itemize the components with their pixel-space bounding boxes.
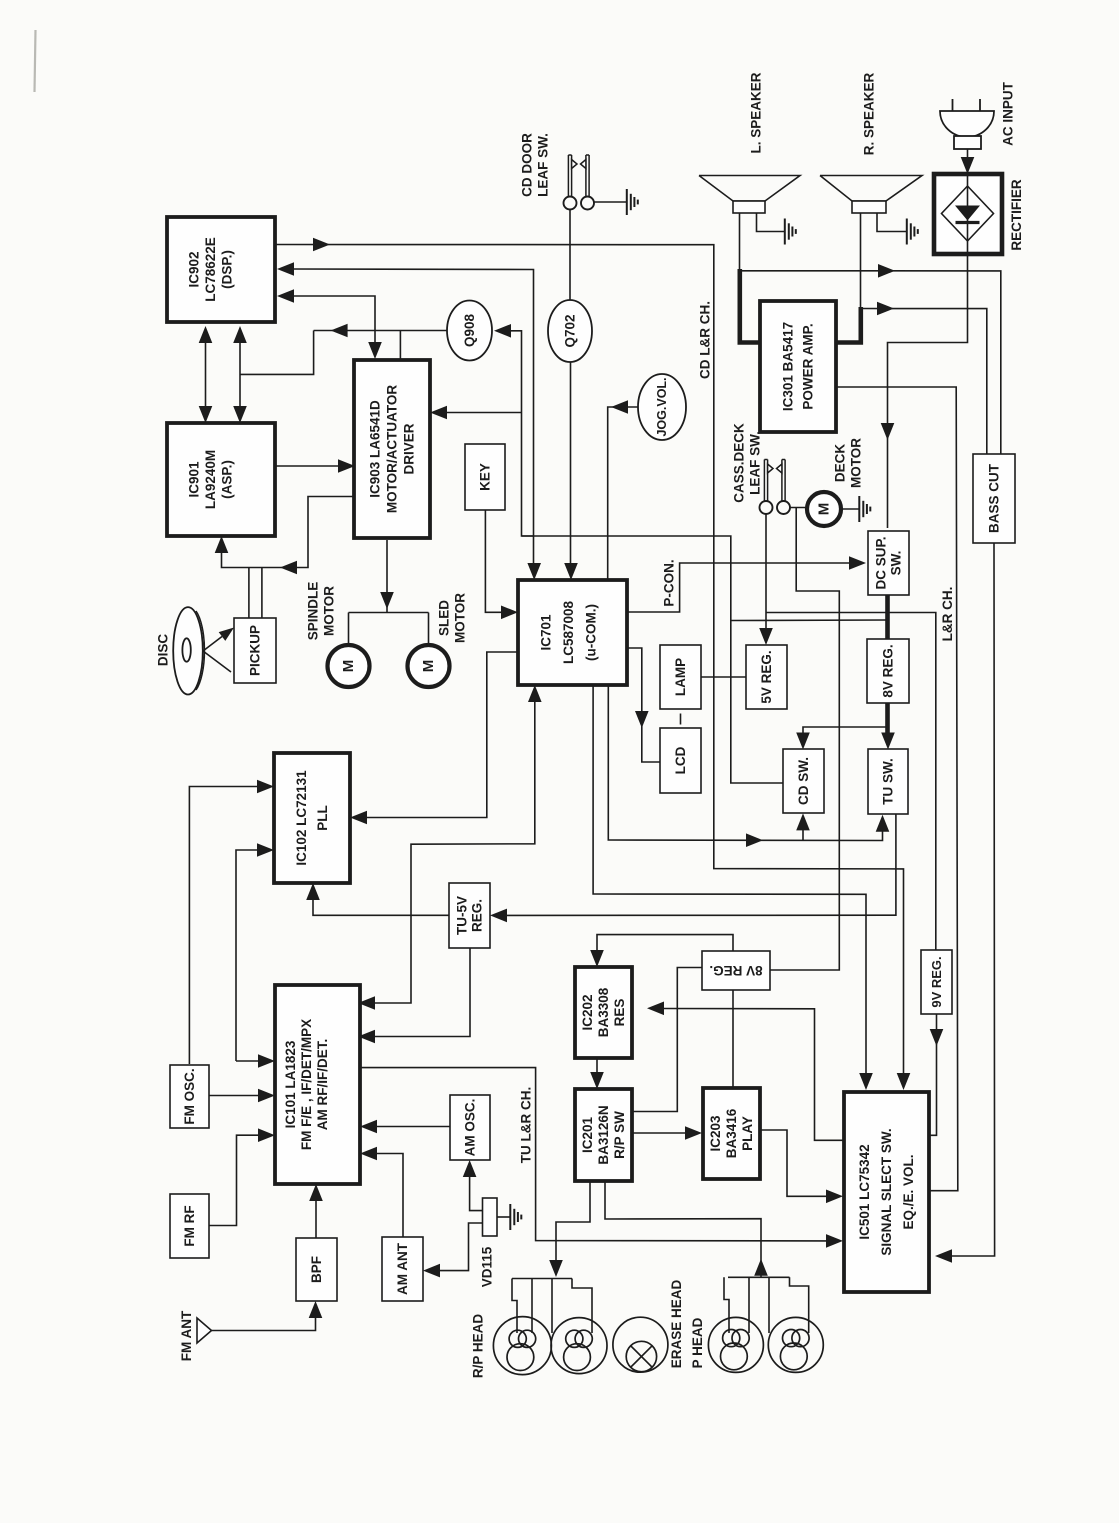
wire rectifier output to DC SUP SW	[888, 254, 968, 528]
wire FM ANT to BPF	[212, 1318, 316, 1331]
svg-text:8V REG.: 8V REG.	[709, 963, 762, 978]
DC SUP SW box	[868, 531, 909, 595]
svg-text:BA3308: BA3308	[596, 987, 611, 1037]
svg-text:M: M	[340, 660, 357, 673]
svg-text:LC587008: LC587008	[561, 600, 576, 664]
svg-text:EQ./E. VOL.: EQ./E. VOL.	[901, 1154, 916, 1229]
wire 8V REG rev left to IC201 right	[632, 968, 702, 1112]
wire IC202 to IC201	[596, 1058, 598, 1072]
svg-text:IC301 BA5417: IC301 BA5417	[781, 322, 796, 411]
L speaker	[699, 176, 800, 202]
IC701 LC587008 u-COM box	[518, 580, 627, 685]
TU SW box	[868, 749, 908, 814]
svg-text:LEAF SW.: LEAF SW.	[536, 133, 551, 197]
svg-text:RES: RES	[612, 999, 627, 1027]
wire R/P head 1 wires	[512, 1279, 517, 1334]
svg-text:TU SW.: TU SW.	[881, 758, 896, 805]
CD door leaf switch	[564, 197, 577, 210]
wire tap py536 to Q908 right edge	[511, 331, 534, 536]
wire JOG.VOL. to IC701 top	[608, 407, 638, 580]
svg-text:AM OSC.: AM OSC.	[463, 1099, 478, 1157]
IC901 LA9240M ASP box	[167, 423, 275, 536]
svg-text:MOTOR: MOTOR	[849, 438, 864, 488]
wire IC701 right edge to LCD	[627, 648, 660, 762]
sled motor M	[408, 645, 450, 687]
wire IC201 bottom to P head bus	[605, 1181, 761, 1277]
wire CD data: IC902 right edge to IC701/IC501 long path (CD L&R CH.)	[275, 245, 904, 1074]
FM RF box	[170, 1194, 209, 1258]
wire CD door leaf switch to ground	[594, 201, 626, 203]
erase head	[613, 1317, 668, 1372]
wire L speaker to IC301 and BASS CUT	[739, 213, 741, 271]
wire IC203 right to IC501 left	[760, 1130, 827, 1196]
wire FM OSC right to IC101 left	[209, 1095, 258, 1097]
svg-text:LC78622E: LC78622E	[203, 237, 218, 302]
svg-text:KEY: KEY	[478, 463, 493, 491]
svg-text:AC INPUT: AC INPUT	[1001, 81, 1016, 146]
svg-text:IC901: IC901	[187, 461, 202, 498]
svg-text:FM OSC.: FM OSC.	[182, 1068, 197, 1124]
wire IC903 bottom to spindle and sled motors	[386, 540, 388, 613]
svg-text:MOTOR: MOTOR	[453, 593, 468, 643]
svg-text:FM RF: FM RF	[182, 1205, 197, 1246]
wire IC301 right edge to IC501 right edge (L&R CH.)	[836, 387, 958, 1191]
svg-text:R/P SW: R/P SW	[612, 1111, 627, 1159]
wire 9V REG to IC501 right edge	[929, 1014, 937, 1135]
wire bus branch to Q908 line	[240, 331, 314, 375]
wire 9V feed line from leaf switch line	[766, 613, 936, 951]
svg-text:M: M	[816, 503, 833, 516]
R/P head 2	[551, 1318, 607, 1374]
svg-text:MOTOR: MOTOR	[322, 586, 337, 636]
svg-text:POWER AMP.: POWER AMP.	[801, 323, 816, 409]
wire R speaker second leg to ground	[877, 213, 906, 232]
wire AM ANT top to IC101 right edge	[377, 1154, 403, 1238]
svg-text:IC201: IC201	[580, 1116, 595, 1153]
svg-text:L. SPEAKER: L. SPEAKER	[749, 72, 764, 153]
svg-text:IC203: IC203	[708, 1115, 723, 1152]
scan artifact mark	[35, 30, 36, 92]
wire power rail px731: py536 line down to CD SW	[522, 536, 783, 783]
JOG.VOL. ellipse	[638, 374, 686, 440]
wire thick 8V REG to TU SW	[885, 703, 890, 742]
svg-text:IC902: IC902	[187, 251, 202, 287]
9V REG box	[921, 950, 952, 1014]
wire CD door leaf switch to Q702	[569, 210, 571, 300]
svg-text:IC202: IC202	[580, 994, 595, 1030]
wire P head bus	[728, 1276, 790, 1278]
svg-text:DC SUP.: DC SUP.	[874, 536, 889, 589]
svg-text:P-CON.: P-CON.	[662, 559, 677, 606]
wire R/P head 2 wires	[551, 1279, 553, 1334]
wire IC201 to IC203	[632, 1132, 686, 1134]
svg-text:VD115: VD115	[480, 1246, 495, 1287]
DISC symbol	[173, 607, 203, 694]
IC902 LC78622E DSP box	[167, 217, 275, 322]
R speaker	[820, 176, 922, 202]
svg-text:9V REG.: 9V REG.	[929, 956, 944, 1007]
wire TU SW output to TU-5V REG	[507, 814, 896, 915]
svg-text:P HEAD: P HEAD	[690, 1317, 705, 1368]
svg-text:BPF: BPF	[309, 1256, 324, 1283]
IC501 LC75342 signal select box	[844, 1092, 929, 1292]
wire R speaker to IC301 and BASS CUT	[860, 213, 862, 309]
IC102 LC72131 PLL box	[274, 753, 350, 883]
svg-text:DRIVER: DRIVER	[402, 423, 417, 474]
svg-text:LCD: LCD	[673, 746, 688, 774]
svg-text:BA3416: BA3416	[724, 1108, 739, 1158]
wire AM OSC to IC101 right edge	[377, 1126, 450, 1128]
transistor Q908	[447, 301, 492, 361]
rectifier box with bridge symbol	[934, 174, 1002, 254]
wire TU-5V REG bottom to IC101	[375, 948, 470, 1037]
svg-text:TU L&R CH.: TU L&R CH.	[519, 1087, 534, 1164]
svg-text:FM ANT: FM ANT	[179, 1310, 194, 1361]
svg-text:Q702: Q702	[563, 314, 578, 347]
svg-text:IC101 LA1823: IC101 LA1823	[283, 1040, 298, 1128]
svg-text:IC903 LA6541D: IC903 LA6541D	[368, 400, 383, 498]
wire IC902 right edge (py296) to IC903 top	[292, 296, 375, 342]
wire pickup legs	[248, 568, 250, 619]
svg-text:(ASP.): (ASP.)	[220, 460, 235, 499]
svg-text:DISC: DISC	[156, 634, 171, 667]
wire branch down into IC903 top	[399, 331, 401, 359]
wire KEY to IC701 left edge	[485, 510, 501, 612]
AM OSC box	[450, 1095, 490, 1160]
svg-text:AM RF/IF/DET.: AM RF/IF/DET.	[315, 1039, 330, 1131]
svg-text:IC501 LC75342: IC501 LC75342	[857, 1144, 872, 1239]
wire IC902 to IC901 bus line 2 (bidirectional)	[239, 329, 241, 420]
wire FM RF to IC101 left	[209, 1135, 258, 1225]
svg-text:BASS CUT: BASS CUT	[987, 463, 1002, 533]
LAMP box	[660, 645, 701, 709]
IC202 BA3308 RES box	[575, 967, 632, 1058]
svg-text:BA3126N: BA3126N	[596, 1105, 611, 1164]
wire IC701 bottom to IC501 top (px866)	[593, 685, 866, 1073]
wire thick DC SUP SW to 8V REG	[885, 595, 890, 639]
svg-text:8V REG.: 8V REG.	[881, 644, 896, 697]
wire L speaker second leg to ground	[757, 213, 785, 232]
wire 8V rail py620	[731, 619, 886, 622]
LCD box	[660, 728, 701, 793]
svg-text:5V REG.: 5V REG.	[759, 650, 774, 703]
spindle motor M	[328, 645, 370, 687]
wire P head 2 wires	[768, 1277, 770, 1333]
svg-text:MOTOR/ACTUATOR: MOTOR/ACTUATOR	[385, 385, 400, 513]
svg-text:PICKUP: PICKUP	[248, 625, 263, 676]
svg-text:LAMP: LAMP	[673, 658, 688, 696]
svg-text:RECTIFIER: RECTIFIER	[1009, 179, 1024, 251]
wire P-CON: IC701 right edge to DC SUP SW	[627, 563, 851, 612]
svg-text:LA9240M: LA9240M	[203, 450, 218, 509]
svg-text:R. SPEAKER: R. SPEAKER	[862, 72, 877, 155]
svg-text:TU-5V: TU-5V	[455, 896, 470, 935]
wire IC903 left edge to pickup and IC901 (RF path)	[222, 497, 356, 568]
svg-text:CD DOOR: CD DOOR	[520, 133, 535, 197]
wire R/P head bus	[512, 1278, 572, 1280]
P head 2	[768, 1317, 823, 1372]
TU-5V REG box	[449, 883, 490, 948]
wire IC902 right edge (py269) to IC701 top	[292, 269, 534, 563]
wire Q702 to IC701 top	[570, 362, 572, 563]
wire TU-5V REG output to PLL bottom	[313, 900, 449, 915]
svg-text:IC102 LC72131: IC102 LC72131	[294, 770, 309, 866]
5V REG box	[746, 645, 787, 709]
wire CD SW top feed	[803, 727, 888, 736]
FM ANT symbol	[197, 1318, 212, 1343]
svg-text:JOG.VOL.: JOG.VOL.	[655, 377, 669, 436]
wire FM OSC top to PLL left edge	[189, 787, 257, 1065]
svg-text:M: M	[420, 660, 437, 673]
svg-text:CASS.DECK: CASS.DECK	[732, 423, 747, 503]
IC101 LA1823 tuner box	[275, 985, 360, 1184]
wire LAMP to 5V REG	[701, 676, 746, 678]
IC301 BA5417 power amp box	[760, 301, 836, 432]
svg-text:AM ANT: AM ANT	[395, 1242, 410, 1295]
svg-text:SIGNAL SLECT SW.: SIGNAL SLECT SW.	[879, 1128, 894, 1255]
wire IC201 bottom to R/P head bus	[556, 1181, 590, 1260]
wire IC501 left to IC202 right edge	[664, 1009, 844, 1141]
deck motor M	[807, 492, 841, 526]
wire BPF to IC101 bottom	[315, 1201, 317, 1238]
wire Q908 output to the left	[314, 330, 447, 332]
BPF box	[296, 1238, 337, 1301]
wire IC701 left edge to PLL right edge	[367, 652, 518, 818]
svg-text:LEAF SW.: LEAF SW.	[748, 431, 763, 495]
svg-text:(DSP.): (DSP.)	[220, 250, 235, 289]
wire VD115 to AM ANT right edge	[440, 1223, 483, 1271]
wire 8V REG rev top to IC202 top	[597, 935, 733, 951]
svg-text:SLED: SLED	[437, 600, 452, 636]
svg-text:L&R CH.: L&R CH.	[940, 587, 955, 642]
R/P head 1	[493, 1317, 551, 1375]
wire 8V REG rev bottom to IC203 top	[732, 990, 734, 1088]
wire BASS CUT output to IC501 right edge	[951, 544, 995, 1257]
svg-text:R/P HEAD: R/P HEAD	[471, 1314, 486, 1379]
AC input plug	[952, 99, 954, 111]
svg-text:PLL: PLL	[315, 805, 330, 831]
IC203 BA3416 PLAY box	[703, 1088, 760, 1179]
wire AC plug to rectifier	[967, 149, 969, 160]
IC903 LA6541D motor/actuator driver box	[354, 360, 430, 538]
svg-text:IC701: IC701	[539, 614, 554, 651]
wire IC701 bottom to IC101 right edge	[375, 702, 535, 1003]
wire VD115 to ground	[497, 1216, 510, 1218]
FM OSC box	[170, 1065, 209, 1128]
8V REG box	[867, 639, 909, 703]
KEY box	[465, 444, 505, 510]
link LAMP to LCD	[680, 714, 682, 725]
wire CASS leaf 2 to deck motor and 8V REG rev	[790, 507, 807, 509]
svg-text:CD SW.: CD SW.	[796, 757, 811, 805]
wire P head 1 wires	[724, 1277, 729, 1333]
PICKUP box	[234, 618, 276, 683]
transistor Q702	[548, 300, 592, 362]
svg-text:SW.: SW.	[889, 551, 904, 576]
BASS CUT box	[973, 454, 1015, 543]
svg-text:REG.: REG.	[470, 899, 485, 932]
P head 1	[708, 1317, 763, 1372]
wire PLL left to IC101 left (via px236)	[236, 850, 257, 1061]
wire CASS leaf switch to 5V REG top	[765, 514, 767, 642]
svg-text:DECK: DECK	[833, 444, 848, 483]
cassette deck leaf switch	[760, 501, 773, 514]
wire TU L&R CH.: IC101 right to IC501 left	[360, 1068, 827, 1241]
wire IC901 right to IC903 left	[275, 465, 338, 467]
wires disc to pickup	[203, 651, 231, 672]
CD SW box	[783, 749, 824, 813]
IC201 BA3126N R/P SW box	[575, 1089, 632, 1181]
svg-text:PLAY: PLAY	[740, 1116, 755, 1151]
svg-text:CD L&R CH.: CD L&R CH.	[698, 301, 713, 379]
wire deck motor to ground	[841, 508, 859, 510]
svg-text:FM F/E , IF/DET/MPX: FM F/E , IF/DET/MPX	[299, 1019, 314, 1150]
svg-text:SPINDLE: SPINDLE	[306, 582, 321, 641]
svg-text:ERASE HEAD: ERASE HEAD	[669, 1279, 684, 1368]
svg-text:(u-COM.): (u-COM.)	[584, 604, 599, 661]
wire VD115 to AM OSC bottom	[470, 1177, 483, 1211]
wire tap to IC903 right edge	[447, 412, 522, 414]
wire IC902 to IC901 bus line 1 (bidirectional)	[205, 329, 207, 420]
AM ANT box	[382, 1237, 423, 1301]
8V REG reversed box	[702, 951, 770, 990]
wire IC701 to CD SW / TU SW bottoms (switch control)	[608, 685, 882, 841]
VD115 crystal	[483, 1198, 498, 1236]
svg-text:Q908: Q908	[462, 313, 477, 347]
